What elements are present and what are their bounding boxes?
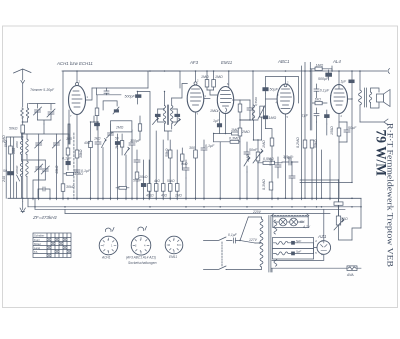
bus rail B xyxy=(28,206,361,208)
resistor 300Ω k2 xyxy=(194,150,198,158)
tube U5 electrodes xyxy=(334,85,345,105)
capacitor dark osc xyxy=(115,134,120,198)
wire em drop xyxy=(219,142,221,199)
svg-text:500µF: 500µF xyxy=(318,77,329,81)
wire y120 row xyxy=(240,119,258,121)
svg-text:1MΩ: 1MΩ xyxy=(215,75,223,79)
svg-text:9kΩ: 9kΩ xyxy=(181,162,188,166)
capacitor 1µF em xyxy=(217,112,221,134)
svg-text:1µF: 1µF xyxy=(302,114,309,118)
capacitor dark osc feed xyxy=(95,123,100,130)
svg-text:50µF: 50µF xyxy=(348,126,357,130)
tube U2 electrodes xyxy=(191,89,202,105)
resistor 1kΩ al horizontal xyxy=(312,101,327,104)
resistor 0.1MΩ em xyxy=(238,104,242,128)
power transformer primary winding xyxy=(260,219,263,267)
resistor 1MΩ g xyxy=(270,138,274,146)
capacitor 0.5µF xyxy=(282,159,298,165)
resistor 50kΩ agc xyxy=(168,140,172,158)
AZ1 internals xyxy=(321,241,328,251)
potentiometer 1MΩ volume xyxy=(253,140,263,198)
capacitor 500pF plate xyxy=(136,92,142,105)
oscillator network wires xyxy=(68,124,70,156)
wire HT feed row xyxy=(300,180,352,182)
svg-text:40kΩ: 40kΩ xyxy=(55,165,59,174)
wire 30 ohm down xyxy=(339,225,353,240)
capacitor 5µF b xyxy=(292,252,314,255)
fuse Si xyxy=(347,266,361,271)
wire osc plate row xyxy=(112,122,132,130)
svg-text:2kΩ: 2kΩ xyxy=(115,142,119,150)
rail junction dots xyxy=(23,198,65,213)
resistor 1MΩ al horizontal xyxy=(310,67,332,71)
table Wellenschalter xyxy=(33,233,71,258)
tube4 top cap ring xyxy=(284,77,287,87)
svg-text:220V: 220V xyxy=(252,210,262,214)
mains switch lower pole xyxy=(204,266,227,270)
resistor 40kΩ xyxy=(66,148,70,155)
svg-text:EM11: EM11 xyxy=(169,255,177,259)
choke coil avc xyxy=(252,105,255,140)
svg-text:EM11: EM11 xyxy=(221,60,233,65)
bus rail A xyxy=(8,197,361,199)
misc junction dots xyxy=(22,91,353,255)
resistor 0.5MΩ horizontal xyxy=(258,161,282,164)
junction dots rail A xyxy=(22,198,353,200)
svg-text:ACH1: ACH1 xyxy=(101,256,111,260)
main HT rail top xyxy=(180,70,387,72)
wire AZ1 top xyxy=(323,209,325,240)
wire OT bottom to jack xyxy=(360,121,384,123)
wire tube3 right xyxy=(233,100,241,104)
svg-text:0,1µF: 0,1µF xyxy=(228,233,238,237)
wire top link row xyxy=(22,124,57,134)
wire tube5 top xyxy=(332,66,339,85)
resistor row a 40kΩ xyxy=(147,160,151,198)
capacitor 1µF al xyxy=(314,108,319,122)
capacitor dark mid xyxy=(141,160,146,198)
svg-text:10kΩ: 10kΩ xyxy=(75,172,84,176)
wire tube5 cathode xyxy=(338,114,340,199)
wire em column xyxy=(239,136,241,198)
resistor osc 40kΩ b xyxy=(89,122,93,198)
wire tube2 cathode xyxy=(195,112,197,198)
tube U3 electrodes xyxy=(221,91,232,113)
svg-text:5MΩ: 5MΩ xyxy=(4,140,8,147)
svg-text:50kΩ: 50kΩ xyxy=(167,179,175,183)
capacitor em small xyxy=(240,100,253,120)
wire tube1 plate xyxy=(86,88,93,100)
svg-text:1MΩ: 1MΩ xyxy=(210,109,218,113)
trimmer osc xyxy=(107,124,115,198)
svg-text:ANA.: ANA. xyxy=(346,273,355,277)
svg-text:50: 50 xyxy=(3,169,7,173)
IF transformer T1 primary coil xyxy=(163,92,166,132)
socket EM11 xyxy=(165,236,183,254)
svg-text:ABC1: ABC1 xyxy=(277,59,290,64)
bus rail D xyxy=(65,212,330,214)
capacitor 1µF ot xyxy=(349,80,354,83)
dial lamp 1 xyxy=(279,218,287,226)
wire 321 drop xyxy=(321,150,323,198)
tube U4 electrodes xyxy=(281,89,292,109)
switch link xyxy=(221,242,223,267)
svg-text:1kΩ: 1kΩ xyxy=(315,98,322,102)
stage1 shield box xyxy=(63,71,180,198)
svg-text:20000: 20000 xyxy=(15,165,19,175)
capacitor 1MΩ dark xyxy=(263,116,268,119)
capacitor 9kpF xyxy=(183,160,189,198)
svg-text:30kΩ: 30kΩ xyxy=(79,149,83,158)
resistor 0.3MΩ h xyxy=(214,140,240,143)
wire antenna mast xyxy=(22,84,24,108)
trimmer cap T4 xyxy=(41,160,49,180)
wire 02m column xyxy=(304,62,306,198)
trimmer capacitor 1 xyxy=(34,107,42,120)
wire tube4 grid left xyxy=(265,98,277,100)
svg-text:50kΩ: 50kΩ xyxy=(165,148,169,157)
sockets header arcs xyxy=(106,227,147,232)
heater winding box 1 xyxy=(272,238,313,249)
svg-text:0,3MΩ: 0,3MΩ xyxy=(262,179,266,190)
svg-text:2MΩ: 2MΩ xyxy=(241,130,250,134)
svg-text:240: 240 xyxy=(2,176,6,183)
resistor 2MΩ em xyxy=(238,128,242,136)
svg-text:ZF=473kHz: ZF=473kHz xyxy=(32,215,58,220)
IF transformer T1 core xyxy=(168,105,169,125)
antenna xyxy=(14,69,32,84)
svg-text:AF3: AF3 xyxy=(189,60,199,65)
tube pin numerals xyxy=(70,79,343,120)
label block right: title xyxy=(373,123,395,268)
svg-text:50µF: 50µF xyxy=(270,88,279,92)
svg-text:ACH1 bzw ECH11: ACH1 bzw ECH11 xyxy=(56,61,93,66)
svg-text:0,1µF: 0,1µF xyxy=(62,157,72,161)
IF transformer T1 secondary coil xyxy=(170,98,173,129)
svg-text:AL4: AL4 xyxy=(332,59,341,64)
tube U1 ACH1 bzw ECH11 xyxy=(69,86,86,115)
wire tube1 grid left xyxy=(68,110,70,144)
svg-text:0,1µF: 0,1µF xyxy=(205,144,215,148)
capacitor 500µF dark xyxy=(326,70,332,80)
socket mid xyxy=(131,236,151,256)
capacitor 5µF a xyxy=(292,241,314,244)
svg-text:Trimmer 5-30pF: Trimmer 5-30pF xyxy=(30,88,55,92)
resistor row e 1MΩ xyxy=(175,150,179,198)
svg-text:1kΩ: 1kΩ xyxy=(94,137,101,141)
coil MW L1b xyxy=(26,134,29,159)
resistor 10kΩ v xyxy=(135,172,139,198)
primary taps xyxy=(226,217,262,270)
wire AZ1 bottom row xyxy=(272,254,324,260)
capacitor 50 h xyxy=(38,187,50,198)
wire left branch xyxy=(6,137,23,198)
heater winding box 2 xyxy=(272,249,313,259)
wire drop 253 xyxy=(252,71,254,120)
wire tube3 top xyxy=(228,71,230,87)
svg-text:4,7V: 4,7V xyxy=(303,225,311,229)
wire trimmer bottoms xyxy=(22,118,51,125)
resistor row b 4kΩ xyxy=(154,131,158,198)
capacitor 50µF k5 xyxy=(339,122,350,142)
tube U4 ABC1 xyxy=(277,84,294,114)
resistor 30kΩ xyxy=(75,150,79,158)
power transformer core xyxy=(269,216,271,273)
wire plate row xyxy=(137,92,150,199)
wire 50k column xyxy=(310,62,312,198)
input box wires xyxy=(29,104,55,111)
resistor 30kΩ b xyxy=(61,184,65,192)
socket ACH1 pins xyxy=(101,238,116,253)
svg-text:100: 100 xyxy=(66,137,72,141)
svg-text:50µF: 50µF xyxy=(133,179,142,183)
wire 301 column xyxy=(301,66,303,198)
svg-text:4kΩ: 4kΩ xyxy=(154,179,160,183)
ground symbol main arrow xyxy=(20,202,25,213)
svg-text:50kΩ: 50kΩ xyxy=(9,127,18,131)
svg-text:40Ω: 40Ω xyxy=(161,194,168,198)
power transformer secondary winding sections xyxy=(274,220,277,266)
dial lamp box xyxy=(273,217,308,228)
resistor 0.3MΩ xyxy=(269,182,273,190)
output transformer secondary xyxy=(369,92,372,102)
wire em grid row xyxy=(214,113,232,142)
capacitor 100pF osc xyxy=(129,130,135,198)
coil LW L2a xyxy=(20,161,23,198)
dial lamp 2 xyxy=(290,218,298,226)
svg-text:30Ω: 30Ω xyxy=(341,217,348,221)
capacitor 0.1µF al xyxy=(314,84,319,98)
svg-text:500pF: 500pF xyxy=(125,95,136,99)
jack arrow xyxy=(384,119,388,125)
trimmer arrow T1 b xyxy=(175,118,181,126)
variable arrow on 30Ω xyxy=(334,218,344,230)
output transformer core xyxy=(365,88,367,107)
wire T1 links xyxy=(158,109,178,140)
tube U1 electrodes xyxy=(72,91,82,107)
mains switch upper pole xyxy=(204,237,233,241)
trimmer capacitor 2 xyxy=(47,109,55,120)
resistor row d 50kΩ xyxy=(168,158,172,198)
resistor 0.1µF right h xyxy=(116,186,129,189)
svg-text:1MΩ: 1MΩ xyxy=(316,63,324,67)
tube2 top cap ring xyxy=(194,71,197,85)
switch em arrow xyxy=(244,156,250,172)
wire right drop xyxy=(351,99,353,182)
wire al area xyxy=(317,122,327,198)
table grid xyxy=(33,233,71,258)
capacitor 50pF s xyxy=(104,88,109,95)
wire tube5 plate to OT xyxy=(348,71,353,99)
resistor 1MΩ sa xyxy=(205,71,209,90)
resistor 10Ω horizontal xyxy=(334,198,343,216)
svg-text:50kΩ: 50kΩ xyxy=(314,139,318,148)
junction dots top rail xyxy=(76,70,361,72)
coil LW L2b xyxy=(26,161,29,198)
svg-text:1MΩ: 1MΩ xyxy=(262,140,266,148)
svg-text:0,5MΩ: 0,5MΩ xyxy=(263,157,274,161)
output transformer primary xyxy=(359,71,362,122)
resistor osc feed xyxy=(95,95,99,123)
socket EM11 pins xyxy=(167,238,181,253)
trimmer arrow low xyxy=(125,147,130,198)
ABC1 stage box xyxy=(265,77,298,129)
capacitor dark al xyxy=(325,110,330,124)
wire osc top xyxy=(91,116,99,122)
trimmer cap T1 xyxy=(35,134,43,198)
gang link dashed xyxy=(73,133,75,198)
tube U5 AL4 xyxy=(331,85,348,114)
resistor mid v xyxy=(138,116,141,140)
tube U3 EM11 xyxy=(217,87,233,114)
svg-text:TA: TA xyxy=(34,250,38,254)
wire 5M xyxy=(10,137,12,171)
svg-text:2MΩ: 2MΩ xyxy=(115,125,124,129)
capacitor 50nF em xyxy=(244,142,250,198)
svg-text:127V: 127V xyxy=(249,238,258,242)
capacitor 3.5µF xyxy=(289,162,295,198)
rail A overshoot ticks xyxy=(33,198,330,200)
capacitor 0.1µF mains xyxy=(234,217,256,243)
capacitor 0.1µF xyxy=(74,170,80,172)
capacitor 50 mica xyxy=(8,172,14,199)
resistor 5MΩ xyxy=(9,146,13,154)
svg-text:5µF: 5µF xyxy=(296,239,301,243)
wire T1 sec to grid xyxy=(172,84,188,99)
antenna coupling coil La xyxy=(21,104,29,123)
resistor 0.2MΩ xyxy=(303,140,307,148)
socket mid pins xyxy=(133,238,149,254)
wire tube2 plate xyxy=(204,98,210,100)
wire right bottom xyxy=(352,228,361,240)
svg-text:150Ω: 150Ω xyxy=(330,126,334,135)
speaker LS xyxy=(377,90,391,107)
wire pins 4 5 xyxy=(314,243,318,254)
svg-text:79 W/M: 79 W/M xyxy=(373,130,389,177)
wire mid link row xyxy=(22,160,46,198)
trimmer cap T2 xyxy=(52,134,60,198)
wire 330 drop xyxy=(329,160,331,198)
svg-text:AZ1: AZ1 xyxy=(317,234,327,239)
wire antenna to bus xyxy=(22,133,24,198)
resistor 10kΩ horizontal xyxy=(64,172,74,175)
wire screen feed xyxy=(97,88,122,95)
wire tube1 cathode down xyxy=(76,115,78,199)
svg-text:300: 300 xyxy=(189,146,195,150)
wire g column xyxy=(265,129,272,199)
tube1 top cap ring xyxy=(76,71,79,86)
svg-text:50: 50 xyxy=(115,137,119,141)
coil MW L1a xyxy=(20,133,23,160)
wire tube4 cathode xyxy=(285,114,287,198)
trimmer cap T3 xyxy=(35,160,43,172)
resistor 1MΩ h xyxy=(232,132,241,135)
speaker box xyxy=(371,88,380,108)
wire grid to tube1 xyxy=(56,134,69,144)
trimmer arrow T1 a xyxy=(153,117,159,125)
coil box 2MΩ xyxy=(111,121,132,132)
capacitor 1kΩ osc xyxy=(95,122,101,198)
resistor osc r xyxy=(120,134,123,155)
svg-text:0,3MΩ: 0,3MΩ xyxy=(229,137,240,141)
svg-text:1MΩ: 1MΩ xyxy=(269,116,277,120)
svg-text:2000: 2000 xyxy=(15,141,19,149)
tube U2 AF3 xyxy=(187,85,204,112)
heater winding 5a xyxy=(274,252,292,255)
resistor 50kΩ xyxy=(21,125,25,133)
svg-text:0,5MΩ: 0,5MΩ xyxy=(254,96,258,106)
resistor 150Ω k5 xyxy=(337,128,341,136)
socket ACH1 xyxy=(99,236,118,255)
lamp supply row with arrows xyxy=(272,214,309,217)
capacitor 0.1µF dark xyxy=(66,156,70,170)
wire osc row2 xyxy=(103,101,117,110)
rail end hook xyxy=(388,69,390,74)
wire lamps row xyxy=(275,221,304,223)
junction dots rail B xyxy=(34,206,362,208)
switch arrow osc xyxy=(102,139,107,199)
wire top feed long xyxy=(92,87,148,89)
svg-text:1MΩ: 1MΩ xyxy=(231,128,239,132)
right area drop xyxy=(339,180,362,228)
capacitor 0.1µF k2 xyxy=(201,140,207,198)
resistor 1MΩ sb xyxy=(212,71,216,90)
rectifier tube AZ1 xyxy=(317,241,331,255)
capacitor 0.1µF block xyxy=(134,150,140,172)
resistor agc2 xyxy=(181,148,184,170)
svg-text:40kΩ: 40kΩ xyxy=(146,194,154,198)
svg-text:100pF: 100pF xyxy=(130,139,141,143)
svg-text:50nF: 50nF xyxy=(249,148,258,152)
top rail xyxy=(62,71,180,88)
svg-text:1MΩ: 1MΩ xyxy=(201,75,209,79)
wire screen row xyxy=(207,90,218,95)
resistor row c 40Ω xyxy=(161,140,165,198)
svg-text:0,2MΩ: 0,2MΩ xyxy=(296,137,300,148)
capacitor T1 left xyxy=(155,109,160,122)
bus rail C xyxy=(35,208,345,210)
label 6V xyxy=(0,0,1,1)
resistor grid w slash xyxy=(258,106,265,141)
resistor 30Ω 2W xyxy=(336,216,340,225)
bottom return line xyxy=(271,268,352,272)
svg-text:(AF3 ABC1 AL4 AZ1): (AF3 ABC1 AL4 AZ1) xyxy=(126,256,156,260)
svg-text:1MΩ: 1MΩ xyxy=(246,154,250,162)
svg-text:3,5µF: 3,5µF xyxy=(283,155,293,159)
resistor 50kΩ r xyxy=(310,140,314,148)
svg-text:6V: 6V xyxy=(300,220,305,224)
table X marks xyxy=(48,238,71,257)
svg-text:40Ω: 40Ω xyxy=(84,141,91,145)
heater winding 4a xyxy=(274,241,292,244)
switch S1a xyxy=(17,175,20,198)
capacitor T1 right xyxy=(175,109,180,122)
socket pin numerals xyxy=(103,238,179,253)
svg-text:Sockelschaltungen: Sockelschaltungen xyxy=(128,261,157,265)
svg-text:30kΩ: 30kΩ xyxy=(66,185,75,189)
capacitor 50nF c xyxy=(275,157,281,178)
capacitor 50µF dark xyxy=(263,84,268,93)
svg-text:1MΩ: 1MΩ xyxy=(175,194,182,198)
svg-text:5µF: 5µF xyxy=(296,250,301,254)
svg-text:0,1µF: 0,1µF xyxy=(320,89,330,93)
capacitor dark 100pF arrow xyxy=(113,107,119,114)
svg-text:1µF: 1µF xyxy=(213,119,220,123)
